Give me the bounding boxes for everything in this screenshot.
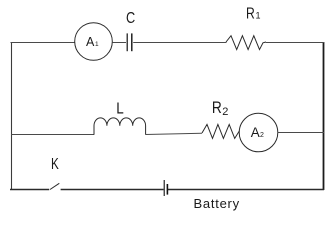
wire A1 to capacitor — [112, 42, 126, 44]
wire top left — [11, 42, 75, 44]
wire A2 to right — [278, 132, 324, 134]
wire R1 to right — [266, 42, 324, 44]
svg-text:R: R — [212, 99, 222, 117]
wire right vertical — [323, 42, 325, 190]
svg-text:R: R — [246, 5, 255, 22]
svg-text:2: 2 — [260, 132, 264, 139]
battery — [163, 180, 165, 196]
svg-text:C: C — [126, 10, 135, 27]
wire capacitor to R1 — [133, 42, 226, 44]
ammeter A1 — [75, 23, 113, 61]
inductor L — [94, 118, 146, 135]
wire L to R2 — [146, 133, 202, 134]
svg-text:A: A — [251, 125, 260, 140]
switch K — [50, 183, 59, 189]
svg-text:K: K — [51, 156, 59, 173]
capacitor C — [126, 33, 128, 51]
svg-text:A: A — [86, 35, 95, 49]
wire middle left — [11, 134, 94, 136]
resistor R1 — [226, 36, 266, 50]
svg-text:2: 2 — [222, 106, 228, 118]
svg-text:L: L — [116, 100, 124, 117]
resistor R2 — [202, 124, 239, 138]
svg-text:1: 1 — [256, 10, 261, 20]
wire switch to battery — [61, 189, 164, 191]
wire bottom left — [10, 189, 49, 191]
svg-text:Battery: Battery — [194, 196, 240, 211]
svg-text:1: 1 — [95, 41, 99, 48]
wire left vertical — [11, 42, 13, 190]
wire bottom right — [168, 189, 324, 191]
ammeter A2 — [239, 113, 278, 152]
